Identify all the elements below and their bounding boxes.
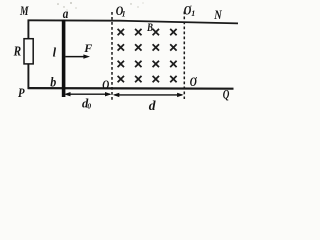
dimension arrow d (between boundaries) <box>113 93 184 97</box>
svg-text:R: R <box>13 45 21 60</box>
svg-text:M: M <box>19 3 29 18</box>
dashed boundary line O1p-Op <box>183 12 185 100</box>
force arrow F <box>65 54 90 58</box>
scan speckles <box>57 2 143 10</box>
svg-text:l: l <box>53 46 57 60</box>
wire top rail M-N <box>28 20 238 23</box>
conducting rod ab <box>62 20 66 97</box>
svg-text:d: d <box>149 98 156 113</box>
svg-text:Q: Q <box>223 87 230 101</box>
svg-text:′: ′ <box>195 76 197 85</box>
svg-text:1: 1 <box>191 9 195 18</box>
svg-text:F: F <box>83 41 92 55</box>
svg-text:1: 1 <box>122 10 126 19</box>
resistor R <box>24 39 33 64</box>
svg-text:O: O <box>102 78 109 92</box>
magnetic field B region crosses (field into page) <box>118 29 177 82</box>
dimension arrow d0 (rod to first boundary) <box>64 92 112 96</box>
svg-text:b: b <box>50 75 56 90</box>
dashed boundary line O1-O <box>111 12 113 100</box>
svg-text:B: B <box>146 22 153 34</box>
wire left upper (M corner to resistor) <box>27 20 29 40</box>
svg-text:0: 0 <box>87 101 91 110</box>
svg-text:P: P <box>18 85 25 100</box>
wire left lower (resistor to P corner) <box>27 63 29 89</box>
svg-text:N: N <box>213 7 222 22</box>
svg-text:a: a <box>63 7 69 22</box>
wire bottom rail P-Q <box>28 87 234 90</box>
